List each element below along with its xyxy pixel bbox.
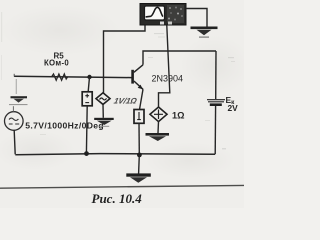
svg-text:1Ω: 1Ω bbox=[172, 110, 184, 120]
junction dot rail/emitter bbox=[137, 153, 142, 158]
svg-text:5.7V/1000Hz/0Deg: 5.7V/1000Hz/0Deg bbox=[25, 120, 104, 130]
meter box B1 (+) bbox=[82, 92, 92, 106]
wire battery top down bbox=[215, 51, 217, 99]
wire emitter down to sensor box bbox=[140, 89, 144, 109]
wire diamond V1 to ground bbox=[102, 104, 104, 117]
svg-text:2V: 2V bbox=[228, 103, 239, 113]
wire scope right to top-right ground bbox=[186, 9, 207, 27]
wire junction down to polarity box bbox=[88, 77, 89, 92]
wire rail to bottom ground bbox=[138, 155, 141, 174]
sensor box B2 bbox=[134, 110, 144, 124]
wire box B1 to bottom rail bbox=[85, 106, 88, 154]
ground (left, at input) bbox=[9, 79, 28, 105]
AC source V (5.7V/1000Hz) bbox=[5, 106, 24, 154]
wire box B2 to bottom rail bbox=[138, 123, 140, 155]
ground (below sensor) bbox=[146, 133, 170, 141]
oscilloscope screen with sine trace bbox=[145, 6, 165, 20]
caption: figure title bbox=[92, 191, 143, 206]
label 1V/1 bbox=[113, 97, 139, 106]
svg-text:1V/1Ω: 1V/1Ω bbox=[113, 97, 139, 106]
label R5 value bbox=[44, 51, 69, 67]
ground (below V1) bbox=[94, 118, 114, 127]
oscilloscope XSC1 body bbox=[140, 4, 186, 26]
wire collector up and top rail to battery bbox=[143, 51, 216, 65]
ground (top right) bbox=[191, 27, 218, 38]
label Ek 2V bbox=[226, 95, 239, 113]
label 2N3904 bbox=[152, 73, 184, 83]
svg-text:Рис. 10.4: Рис. 10.4 bbox=[92, 191, 143, 206]
battery Ek bbox=[207, 100, 225, 106]
junction dot rail/source bbox=[84, 151, 89, 156]
label source value bbox=[25, 120, 104, 130]
svg-text:2N3904: 2N3904 bbox=[152, 73, 184, 83]
wire base rail (input to transistor base) bbox=[14, 74, 132, 78]
current sensor diamond (1 Ohm) bbox=[150, 107, 167, 122]
ground (bottom, below rail) bbox=[126, 173, 151, 182]
wire scope A-port down-left to diamond source V1 bbox=[104, 26, 146, 93]
transistor Q1 2N3904 bbox=[131, 65, 143, 90]
svg-text:КОм-0: КОм-0 bbox=[44, 58, 69, 67]
wire diamond to ground bbox=[157, 122, 160, 133]
resistor R5 zigzag bbox=[52, 74, 68, 80]
node A junction dot (base rail / meter branch) bbox=[87, 75, 91, 79]
wire battery bottom to rail corner bbox=[214, 106, 216, 154]
dependent source diamond V1 (sine) bbox=[96, 93, 110, 105]
label 1 Ohm bbox=[172, 110, 184, 120]
wire scope B-port down to current sensor diamond bbox=[159, 26, 170, 108]
bottom rail wire bbox=[15, 154, 215, 155]
